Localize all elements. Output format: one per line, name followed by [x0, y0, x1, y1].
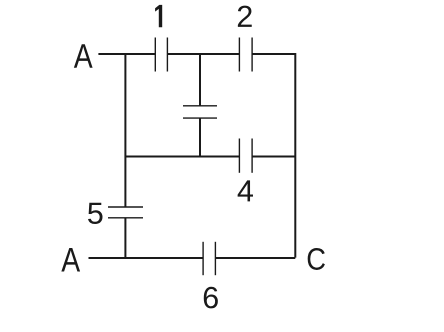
wire: bottom from capacitor 6 to bottom-right corner — [215, 257, 295, 259]
wire: left vertical rail upper section — [124, 53, 126, 207]
wire: top between capacitor 1 and capacitor 2 — [167, 53, 239, 55]
wire: middle vertical branch lower section — [199, 118, 201, 157]
label 1 — [155, 5, 162, 27]
wire: middle horizontal rail left of capacitor 4 — [125, 156, 239, 158]
wire: middle vertical branch upper section — [199, 53, 201, 106]
label 4 — [238, 180, 253, 201]
capacitor C2 plates — [239, 38, 252, 72]
label 6 — [204, 287, 218, 309]
wire: bottom lead from A to capacitor 6 — [89, 257, 204, 259]
wire: top-right corner and right vertical rail — [252, 54, 295, 258]
node A (top-left terminal label) — [74, 44, 93, 68]
capacitor C1 plates — [155, 38, 167, 72]
wire: middle horizontal rail right of capacitor 4 — [252, 156, 295, 158]
capacitor C3 plates (middle, horizontal) — [183, 106, 217, 118]
node A (bottom-left terminal label) — [61, 248, 80, 272]
capacitor C4 plates — [239, 139, 252, 173]
capacitor C6 plates — [203, 242, 215, 275]
wire: left vertical rail lower section — [124, 218, 126, 259]
label 2 — [238, 6, 252, 27]
label 5 — [88, 203, 102, 224]
capacitor C5 plates (left rail, horizontal) — [108, 207, 143, 218]
node C (bottom-right terminal label) — [308, 248, 325, 270]
wire: top lead from A to capacitor 1 — [98, 53, 155, 55]
